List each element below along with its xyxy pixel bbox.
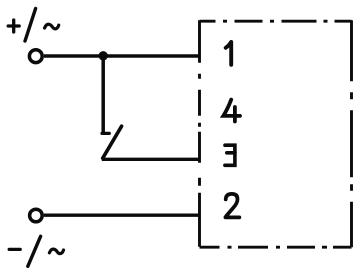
label -/~ (net name for bottom terminal) (9, 236, 63, 266)
wire: junction down to switch fixed contact (101, 56, 105, 134)
terminal circle (-/~ input) (30, 209, 43, 222)
pin label 2 (225, 194, 239, 218)
label +/~ (net name for top terminal) (8, 9, 59, 42)
switch contact (fixed-contact tick + moving blade) (102, 126, 122, 158)
device outline U1 (dash-dot boundary box) (200, 20, 352, 247)
pin label 1 (226, 42, 232, 65)
wire: +/~ terminal to pin 1 (44, 54, 201, 58)
wire: -/~ terminal to pin 2 (44, 213, 201, 216)
terminal circle (+/~ input) (29, 50, 42, 63)
junction node on +/~ wire (99, 51, 108, 60)
pin label 4 (223, 100, 240, 122)
pin label 3 (225, 145, 235, 165)
wire: switch to pin 3 (102, 158, 201, 161)
